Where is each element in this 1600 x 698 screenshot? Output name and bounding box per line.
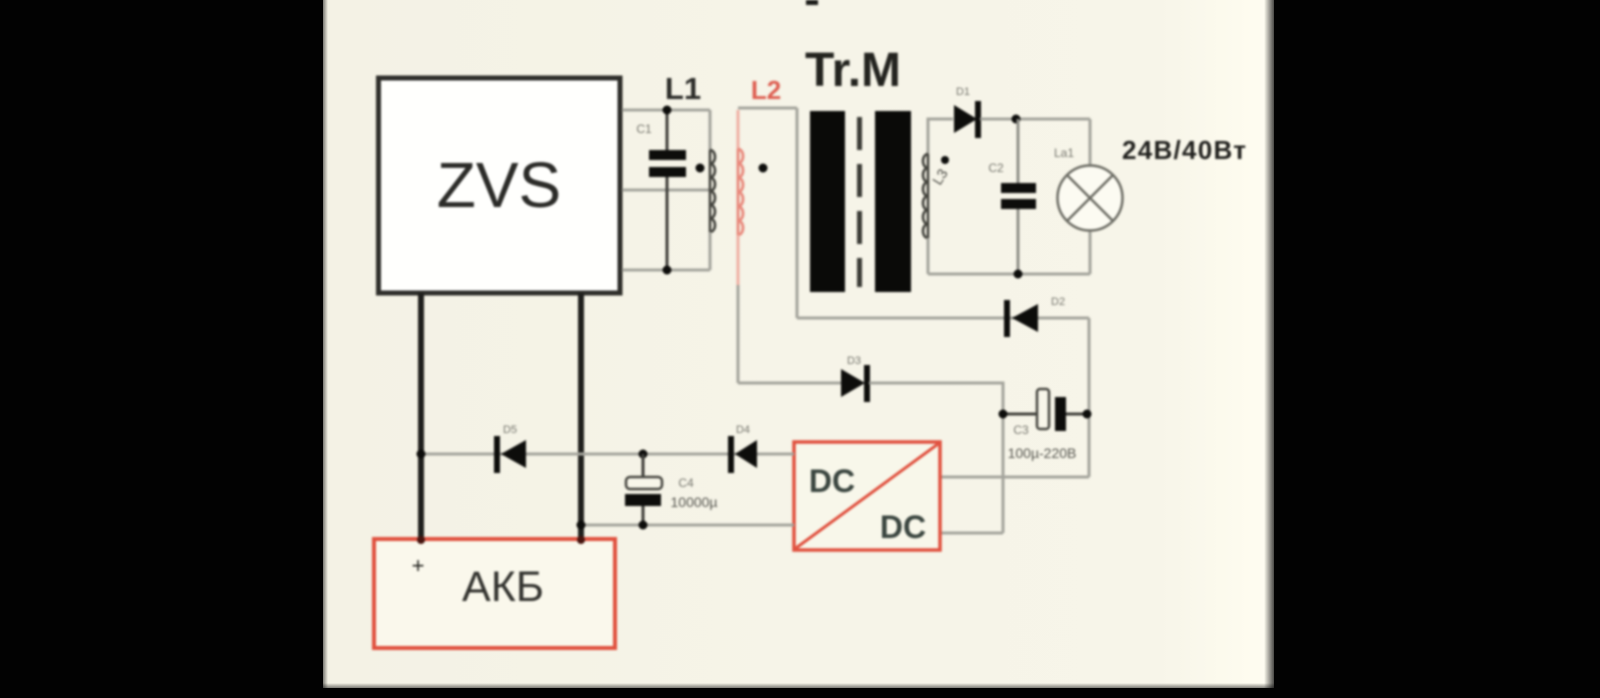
- svg-text:L2: L2: [751, 75, 781, 105]
- wire DC output top: [940, 476, 1089, 479]
- wire D2 to C3 right vertical: [1088, 318, 1091, 477]
- capacitor C1: [636, 110, 686, 270]
- top edge artifact: [806, 0, 818, 5]
- wire bottom row to DC input: [581, 524, 794, 527]
- battery positive lead (thick): [418, 293, 424, 540]
- node L2 phasing dot: [759, 164, 768, 173]
- node C1 bottom junction: [663, 266, 672, 275]
- inductor L1: [665, 71, 715, 270]
- svg-text:10000µ: 10000µ: [671, 494, 718, 510]
- inductor L3: [923, 119, 953, 274]
- diode D3: [841, 355, 870, 402]
- wire ZVS centre tap to L1: [622, 189, 710, 192]
- node battery negative terminal: [577, 536, 585, 544]
- capacitor C2: [988, 119, 1036, 274]
- block ZVS: [379, 78, 621, 293]
- wire top of lamp branch: [1016, 118, 1090, 121]
- svg-text:L3: L3: [929, 166, 951, 188]
- battery АКБ: [374, 539, 615, 648]
- wire ZVS top to L1: [622, 109, 710, 112]
- transformer Tr.M: [805, 44, 911, 292]
- node C3 right junction: [1083, 410, 1092, 419]
- node C4 top junction: [639, 450, 648, 459]
- svg-text:D3: D3: [847, 355, 861, 367]
- lamp La1: [1054, 119, 1123, 274]
- capacitor C3: [1003, 389, 1087, 461]
- svg-text:C4: C4: [678, 476, 694, 490]
- wire net A to D2: [797, 317, 1089, 320]
- node C2 bottom junction: [1014, 270, 1023, 279]
- svg-text:100µ-220В: 100µ-220В: [1008, 445, 1077, 461]
- node bottom row on battery lead: [577, 521, 586, 530]
- svg-text:C2: C2: [988, 161, 1004, 175]
- node C3 left junction: [999, 410, 1008, 419]
- inductor L2: [738, 75, 781, 285]
- capacitor C4: [625, 454, 718, 525]
- wire bottom of lamp branch: [928, 273, 1090, 276]
- svg-text:D1: D1: [956, 86, 970, 98]
- battery negative lead (thick): [578, 293, 584, 540]
- wire DC output bottom: [940, 532, 1003, 535]
- node L3 phasing dot: [941, 156, 949, 164]
- wire L2 bottom to D3: [737, 285, 740, 383]
- diode D1: [954, 86, 1016, 138]
- svg-text:L1: L1: [665, 71, 701, 106]
- svg-text:C3: C3: [1013, 423, 1029, 437]
- svg-text:D4: D4: [736, 424, 750, 436]
- svg-text:C1: C1: [636, 122, 652, 136]
- wire D3 to C3 left vertical: [869, 383, 1003, 533]
- svg-text:+: +: [412, 553, 425, 578]
- svg-text:D5: D5: [503, 424, 517, 436]
- node D1 cathode junction: [1012, 115, 1021, 124]
- wire L2 top to net A: [738, 107, 797, 110]
- svg-text:D2: D2: [1051, 296, 1065, 308]
- node C1 top junction: [663, 106, 672, 115]
- wire net A vertical: [796, 108, 799, 318]
- svg-text:ZVS: ZVS: [437, 149, 561, 221]
- svg-text:DC: DC: [809, 463, 855, 499]
- diode D2: [1004, 296, 1065, 337]
- node D5 row left junction: [417, 450, 426, 459]
- svg-text:La1: La1: [1054, 146, 1074, 160]
- wire ZVS bottom to L1: [622, 269, 710, 272]
- node C4 bottom junction: [639, 521, 648, 530]
- diode D5: [494, 424, 526, 473]
- svg-text:Tr.M: Tr.M: [805, 44, 901, 97]
- svg-text:АКБ: АКБ: [462, 563, 544, 611]
- svg-text:24В/40Вт: 24В/40Вт: [1122, 135, 1246, 165]
- wire D5 D4 row: [421, 453, 794, 456]
- node battery positive terminal: [417, 536, 425, 544]
- node L1 phasing dot: [696, 164, 705, 173]
- wire D3 row: [738, 382, 841, 385]
- svg-text:DC: DC: [880, 509, 926, 545]
- converter DC/DC: [794, 442, 940, 550]
- diode D4: [728, 424, 757, 473]
